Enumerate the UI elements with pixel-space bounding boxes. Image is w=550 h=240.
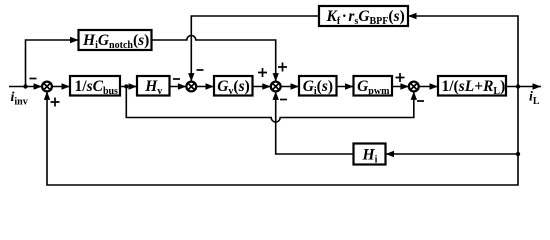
wire S1 to block 1/sCbus xyxy=(52,86,70,88)
summing junction S2 xyxy=(186,82,196,92)
block Kf·rsGBPF(s) xyxy=(319,6,408,26)
block HiGnotch(s) xyxy=(79,30,152,50)
wire Gv(s) to summing junction S3 xyxy=(253,86,271,88)
sign minus at S2 top input xyxy=(197,69,204,71)
node dot A on input line (tap to notch path) xyxy=(23,84,27,88)
sign minus at S3 bottom input xyxy=(280,99,287,101)
svg-text:Gi(s): Gi(s) xyxy=(303,78,333,97)
block Gv(s) xyxy=(214,76,253,96)
node dot C output tap xyxy=(516,84,520,88)
arrowhead into BPF block right side xyxy=(408,13,417,19)
svg-text:Gv(s): Gv(s) xyxy=(217,78,250,97)
arrowhead into notch block xyxy=(70,37,79,43)
arrowhead into S4 from bottom xyxy=(411,91,417,100)
arrowhead into S2 from top xyxy=(188,73,194,82)
arrowhead into S3 from top xyxy=(273,73,279,82)
arrowhead into S3 from bottom xyxy=(273,91,279,100)
wire Hv to summing junction S2 xyxy=(170,86,187,88)
arrowhead output iL xyxy=(533,83,542,89)
wire feedback trunk: up to BPF input line, down to bottom return into S1 xyxy=(47,16,518,185)
arrowhead into S2 from left xyxy=(178,83,187,89)
arrowhead into 1/(sL+RL) xyxy=(430,83,439,89)
arrowhead into Gpwm xyxy=(345,83,354,89)
wire trunk branch to Hi input xyxy=(386,153,519,155)
node dot B between 1/sCbus and Hv xyxy=(124,84,128,88)
block 1/(sL+RL) xyxy=(438,76,506,96)
summing junction S1 xyxy=(42,82,52,92)
sign plus at S3 left input xyxy=(258,68,267,77)
arrowhead into S4 from left xyxy=(400,83,409,89)
block Gi(s) xyxy=(299,76,337,96)
wire S2 to Gv(s) xyxy=(196,86,214,88)
block 1/sCbus xyxy=(70,76,120,96)
sign plus at S4 left input xyxy=(396,73,405,82)
block Hi xyxy=(354,144,386,165)
arrowhead into Hv xyxy=(129,83,138,89)
sign minus at S2 left input xyxy=(173,78,180,80)
svg-text:iL: iL xyxy=(529,90,540,108)
wire Gpwm to summing junction S4 xyxy=(392,86,409,88)
summing junction S4 xyxy=(409,82,419,92)
node dot D on trunk at Hi branch xyxy=(516,152,520,156)
arrowhead into Gi(s) xyxy=(291,83,300,89)
wire mid feedback from node B down, right (hops under Hi vertical) and up into S4 bottom xyxy=(126,87,414,123)
sign plus at S1 bottom input xyxy=(51,98,60,107)
arrowhead into 1/sCbus xyxy=(62,83,71,89)
block Hv xyxy=(137,76,170,96)
wire from node A up and right to notch block xyxy=(26,40,79,87)
wire S3 to Gi(s) xyxy=(281,86,299,88)
arrowhead into Gv(s) xyxy=(206,83,215,89)
sign minus at S1 left input xyxy=(30,78,37,80)
summing junction S3 xyxy=(271,82,281,92)
arrowhead into S3 from left xyxy=(262,83,271,89)
wire Hi output up into S3 bottom (vertical crossed by mid feedback hop) xyxy=(276,91,354,154)
block Gpwm xyxy=(354,76,393,96)
arrowhead into Hi block right side xyxy=(386,151,395,157)
svg-text:iinv: iinv xyxy=(11,90,28,108)
wire S4 to 1/(sL+RL) xyxy=(419,86,438,88)
wire BPF output down into S2 top xyxy=(191,16,319,82)
wire output iL xyxy=(506,86,541,88)
arrowhead into S1 from bottom xyxy=(44,91,50,100)
wire input i_inv line xyxy=(9,86,42,88)
wire 1/sCbus to Hv xyxy=(120,86,137,88)
wire notch output to summing junction S3 top (hops over BPF vertical) xyxy=(152,36,276,82)
arrowhead into summing junction S1 xyxy=(34,83,43,89)
wire Gi(s) to Gpwm xyxy=(337,86,354,88)
sign plus at S3 top input xyxy=(278,63,287,72)
sign minus at S4 bottom input xyxy=(417,100,424,102)
